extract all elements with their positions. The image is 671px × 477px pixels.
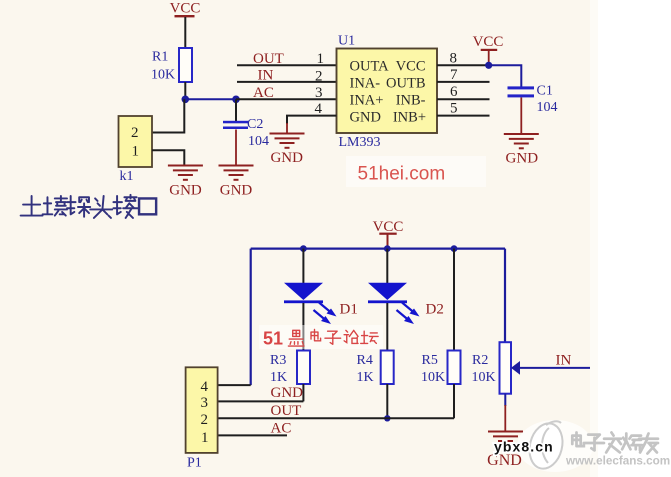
wire k1 pin2 — [152, 99, 184, 132]
wire AC net to U1 pin3 — [236, 98, 337, 100]
svg-text:1: 1 — [132, 144, 140, 160]
resistor R1 — [151, 48, 192, 83]
svg-text:4: 4 — [201, 379, 209, 395]
resistor R5 — [421, 351, 461, 386]
connector k1 — [119, 116, 153, 184]
svg-text:2: 2 — [315, 69, 323, 85]
wire U1 pin8 to VCC and C1 — [437, 64, 489, 66]
wire — [386, 303, 388, 351]
node junction2 — [232, 96, 240, 104]
wire U1 pin4 to ground — [287, 116, 337, 124]
node bus-D1 — [300, 245, 307, 252]
wire R3 bottom — [302, 384, 304, 401]
svg-text:D2: D2 — [426, 302, 444, 318]
svg-text:D1: D1 — [340, 302, 358, 318]
label 51hei.com — [346, 156, 486, 187]
svg-text:OUTA: OUTA — [350, 58, 390, 74]
svg-text:51: 51 — [263, 329, 283, 349]
ground k1 — [168, 166, 203, 199]
wire OUT net — [218, 417, 454, 419]
svg-text:GND: GND — [271, 385, 304, 401]
wire — [235, 130, 237, 166]
svg-text:P1: P1 — [187, 456, 202, 471]
svg-text:1K: 1K — [357, 370, 374, 385]
wire — [504, 405, 506, 432]
svg-text:www.elecfans.com: www.elecfans.com — [565, 455, 670, 468]
svg-text:3: 3 — [201, 395, 209, 411]
wire — [185, 98, 236, 100]
svg-text:U1: U1 — [338, 34, 355, 49]
svg-text:AC: AC — [271, 421, 292, 437]
wire U1 pin6 — [437, 98, 490, 100]
svg-text:C1: C1 — [537, 84, 553, 99]
svg-text:R5: R5 — [422, 353, 438, 368]
wire — [302, 249, 304, 283]
wire — [235, 99, 237, 121]
capacitor C2 — [223, 117, 269, 149]
connector P1 — [186, 367, 218, 470]
svg-text:k1: k1 — [120, 169, 134, 184]
label ybx8.cn with watermark — [494, 420, 593, 472]
svg-text:IN: IN — [556, 352, 572, 368]
wire U1 pin7 — [437, 81, 490, 83]
wire — [184, 82, 186, 99]
wire — [386, 249, 388, 283]
svg-text:R1: R1 — [152, 50, 168, 65]
svg-text:INA+: INA+ — [350, 93, 384, 109]
svg-text:10K: 10K — [472, 370, 496, 385]
resistor R4 — [357, 351, 394, 386]
wire VCC bus — [251, 247, 505, 249]
ground C1 — [504, 134, 539, 166]
wire R5 bottom — [453, 384, 455, 418]
wire — [520, 98, 522, 135]
svg-text:GND: GND — [270, 150, 303, 166]
wire R2 bottom — [504, 394, 506, 406]
wire GND net — [218, 400, 303, 402]
svg-text:R3: R3 — [270, 353, 286, 368]
wire — [302, 303, 304, 351]
wire bus left drop to P1 pin4 — [250, 249, 252, 386]
ground R2 — [487, 432, 523, 469]
wire OUT net — [237, 51, 337, 67]
svg-text:GND: GND — [506, 150, 539, 166]
svg-text:GND: GND — [350, 110, 381, 126]
svg-text:1: 1 — [317, 51, 325, 67]
svg-text:LM393: LM393 — [339, 135, 381, 150]
node junction1 — [182, 96, 190, 104]
svg-text:VCC: VCC — [373, 219, 404, 235]
ground U1 pin4 — [270, 134, 305, 166]
svg-text:AC: AC — [253, 85, 274, 101]
wire P1 pin4 to bus — [218, 384, 251, 386]
node junction OUT-R4 — [384, 415, 390, 421]
svg-text:4: 4 — [315, 101, 323, 117]
wire bus right drop to R2 — [504, 249, 506, 343]
svg-text:VCC: VCC — [473, 34, 504, 50]
watermark elecfans logo text — [572, 433, 658, 454]
label 51黑电子论坛 — [259, 325, 383, 349]
svg-text:INA-: INA- — [350, 75, 381, 91]
svg-text:7: 7 — [450, 67, 458, 83]
svg-text:2: 2 — [131, 125, 139, 141]
svg-text:VCC: VCC — [170, 1, 201, 17]
LED D2 — [368, 283, 444, 324]
svg-text:INB-: INB- — [396, 93, 426, 109]
wire IN net — [237, 67, 337, 83]
svg-text:1K: 1K — [270, 370, 287, 385]
node VCC junction — [485, 62, 492, 69]
wire R4 bottom — [386, 384, 388, 418]
svg-text:C2: C2 — [247, 117, 263, 132]
wire k1 pin1 — [152, 150, 184, 164]
node bus-R5 — [451, 245, 458, 252]
power VCC (U1 pin8) — [473, 34, 504, 65]
svg-text:10K: 10K — [151, 68, 175, 83]
svg-text:104: 104 — [537, 100, 558, 115]
svg-text:8: 8 — [450, 51, 458, 67]
svg-text:INB+: INB+ — [393, 110, 426, 126]
op-amp U1 LM393 — [337, 34, 438, 151]
svg-text:R4: R4 — [357, 353, 373, 368]
resistor R3 — [270, 351, 310, 386]
potentiometer R2 — [472, 342, 591, 394]
wire bus to R5 — [453, 249, 455, 351]
svg-text:ybx8.cn: ybx8.cn — [494, 439, 554, 455]
svg-text:OUTB: OUTB — [386, 75, 425, 91]
svg-text:R2: R2 — [472, 353, 488, 368]
svg-text:5: 5 — [450, 101, 458, 117]
svg-text:6: 6 — [450, 84, 458, 100]
svg-text:VCC: VCC — [396, 58, 426, 74]
svg-text:2: 2 — [201, 412, 209, 428]
wire — [286, 123, 288, 134]
power VCC (bottom bus) — [373, 219, 404, 249]
svg-text:10K: 10K — [421, 370, 445, 385]
svg-text:OUT: OUT — [271, 403, 302, 419]
svg-text:3: 3 — [315, 85, 323, 101]
ground C2 — [219, 166, 254, 199]
svg-text:51hei.com: 51hei.com — [358, 164, 446, 185]
svg-text:1: 1 — [201, 430, 209, 446]
node bus-D2 — [384, 245, 391, 252]
capacitor C1 — [508, 84, 558, 115]
label soil probe title 土壤探头接口 — [21, 195, 157, 218]
wire U1 pin5 — [437, 115, 490, 117]
svg-text:GND: GND — [220, 183, 253, 199]
wire — [184, 17, 186, 49]
wire AC net — [218, 434, 287, 436]
power VCC (R1 top) — [170, 1, 201, 18]
LED D1 — [284, 283, 358, 324]
svg-text:104: 104 — [248, 134, 269, 149]
svg-text:GND: GND — [169, 183, 202, 199]
